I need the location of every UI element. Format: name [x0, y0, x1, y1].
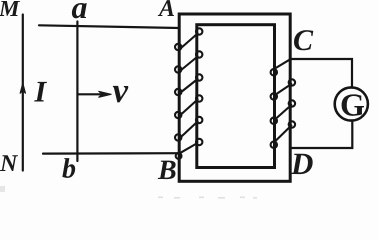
wire C to galvanometer: [290, 59, 352, 88]
wire bottom rail b-B: [43, 152, 179, 155]
svg-text:D: D: [290, 146, 313, 181]
wire MN left rail: [22, 15, 24, 171]
faint caption remnant at bottom edge: [0, 186, 257, 199]
transformer core inner rectangle: [197, 25, 275, 168]
turn loops right edge: [196, 28, 202, 34]
svg-text:C: C: [293, 24, 314, 57]
svg-text:G: G: [340, 87, 365, 123]
turn loops right edge: [289, 79, 295, 85]
winding diagonals: [275, 59, 290, 68]
svg-text:A: A: [157, 0, 175, 22]
current arrow I: [20, 83, 26, 94]
svg-text:I: I: [34, 76, 48, 109]
conductor bar ab: [76, 22, 78, 162]
svg-text:B: B: [157, 155, 177, 186]
svg-text:N: N: [0, 151, 19, 177]
svg-text:b: b: [62, 154, 76, 185]
primary coil AB (left limb): [175, 28, 202, 159]
winding diagonals: [179, 34, 197, 50]
turn loops left edge: [271, 69, 277, 75]
secondary coil CD (right limb): [271, 59, 296, 148]
svg-text:M: M: [0, 0, 21, 21]
transformer core outer rectangle: [179, 14, 290, 181]
turn loops left edge: [175, 44, 181, 50]
wire D to galvanometer: [290, 121, 352, 148]
wire top rail a-A: [39, 25, 179, 28]
svg-text:a: a: [72, 0, 88, 25]
velocity arrow v: [79, 93, 102, 95]
svg-text:v: v: [113, 71, 129, 110]
galvanometer G: [335, 87, 368, 120]
